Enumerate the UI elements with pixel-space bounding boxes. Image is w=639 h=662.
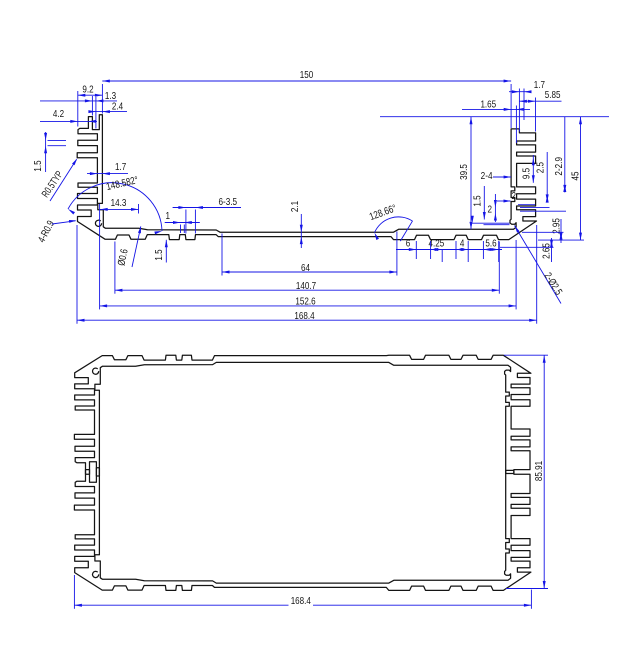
- bottom view: assembled enclosure, base half: [74, 468, 531, 591]
- dim 1.5 left wall fin: [45, 132, 47, 172]
- svg-text:4: 4: [460, 238, 465, 249]
- svg-text:4.2: 4.2: [53, 109, 64, 120]
- dim 168.4 top view: [77, 319, 537, 321]
- svg-text:2.4: 2.4: [112, 102, 123, 113]
- svg-text:2.65: 2.65: [542, 243, 553, 259]
- svg-text:6-3.5: 6-3.5: [219, 197, 238, 208]
- svg-text:2: 2: [487, 204, 492, 215]
- dim 1.3: [40, 100, 117, 102]
- svg-text:2.95: 2.95: [552, 218, 563, 234]
- svg-text:45: 45: [571, 171, 582, 180]
- dim 2-2.9: [564, 117, 566, 193]
- top view: extrusion U-channel profile: [77, 115, 536, 240]
- dim 4.2: [40, 120, 97, 122]
- dim 6-3.5: [173, 207, 241, 209]
- svg-text:39.5: 39.5: [459, 164, 470, 180]
- dim 140.7: [115, 289, 499, 291]
- long extension line right: [380, 116, 609, 118]
- svg-text:1.5: 1.5: [33, 160, 44, 171]
- dim 2.4: [89, 111, 127, 113]
- svg-text:2.1: 2.1: [290, 201, 301, 212]
- dim 2.65: [551, 238, 553, 262]
- svg-text:5.85: 5.85: [545, 90, 561, 101]
- svg-text:5.6: 5.6: [485, 238, 496, 249]
- dim 2.5: [546, 152, 548, 202]
- svg-text:1.3: 1.3: [105, 91, 116, 102]
- svg-text:168.4: 168.4: [294, 311, 314, 322]
- svg-text:140.7: 140.7: [296, 281, 316, 292]
- svg-text:2.5: 2.5: [536, 162, 547, 173]
- dim 45: [580, 117, 582, 240]
- svg-text:2-2.9: 2-2.9: [554, 157, 565, 176]
- svg-text:1.5: 1.5: [154, 249, 165, 260]
- note 2-dia2.5: [515, 226, 562, 304]
- dim 9.5: [532, 155, 534, 183]
- screw channel C left: [95, 220, 101, 226]
- svg-text:2-4: 2-4: [481, 171, 493, 182]
- angle 148.582 deg: [68, 183, 162, 231]
- dim 2.95: [560, 219, 562, 243]
- svg-text:1.65: 1.65: [480, 99, 496, 110]
- dim 1.7 right top: [509, 91, 531, 93]
- svg-text:6: 6: [406, 238, 411, 249]
- svg-text:1: 1: [165, 211, 170, 222]
- svg-text:1.5: 1.5: [473, 195, 484, 206]
- angle 128.66 deg: [375, 217, 413, 233]
- dim 14.3 pocket: [100, 208, 138, 210]
- dim 85.91: [543, 355, 545, 588]
- svg-text:1.7: 1.7: [115, 162, 126, 173]
- dim 168.4 bottom view: [74, 604, 288, 606]
- dim 150: [102, 80, 511, 82]
- svg-text:1.7: 1.7: [534, 80, 545, 91]
- dim 5.85: [519, 100, 561, 102]
- bottom view screw channels: [93, 571, 99, 577]
- svg-text:9.2: 9.2: [82, 84, 93, 95]
- dim 9.2: [78, 94, 103, 96]
- dim 152.6: [100, 305, 516, 307]
- svg-text:64: 64: [301, 263, 310, 274]
- svg-text:2: 2: [512, 191, 517, 202]
- dim 64: [222, 271, 397, 273]
- rib ext lines: [472, 222, 510, 224]
- dim 39.5: [470, 117, 472, 230]
- svg-text:9.5: 9.5: [522, 168, 533, 179]
- svg-text:14.3: 14.3: [111, 198, 127, 209]
- svg-text:152.6: 152.6: [295, 296, 315, 307]
- dim 1.7 left wall: [87, 173, 128, 175]
- bottom view: cover half: [74, 355, 531, 476]
- svg-text:168.4: 168.4: [291, 596, 311, 607]
- dim 1.65: [462, 108, 530, 110]
- svg-text:150: 150: [300, 70, 314, 81]
- svg-text:85.91: 85.91: [534, 461, 545, 481]
